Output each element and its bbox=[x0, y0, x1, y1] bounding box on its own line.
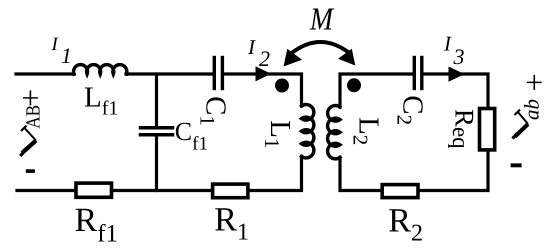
inductor L2 bbox=[328, 106, 340, 159]
inductor Lf1 bbox=[74, 65, 127, 74]
svg-text:I2: I2 bbox=[247, 35, 270, 71]
minus sign of VAB bbox=[26, 169, 35, 173]
resistor Rf1 bbox=[76, 183, 112, 197]
inductor L1 bbox=[302, 104, 314, 157]
wire Cf1 branch top bbox=[155, 74, 158, 126]
svg-text:+: + bbox=[525, 64, 543, 100]
minus sign of Vab bbox=[511, 163, 522, 167]
label Vab (rotated) bbox=[513, 110, 529, 139]
svg-text:Lf1: Lf1 bbox=[84, 82, 118, 120]
resistor R1 bbox=[213, 184, 248, 198]
dot of winding L1 bbox=[275, 79, 289, 93]
wire top-left from terminal A bbox=[16, 72, 74, 75]
mutual inductance arc M bbox=[291, 42, 350, 54]
svg-text:I1: I1 bbox=[51, 34, 72, 68]
svg-text:M: M bbox=[309, 1, 335, 37]
svg-text:C2: C2 bbox=[392, 95, 428, 125]
svg-text:L2: L2 bbox=[348, 117, 384, 145]
arrowhead of current I3 bbox=[449, 67, 465, 82]
svg-text:ab: ab bbox=[520, 99, 544, 120]
wire Req top corner bbox=[424, 74, 489, 107]
capacitor Cf1 bbox=[141, 128, 173, 135]
arrowhead M right bbox=[338, 49, 355, 66]
svg-text:R1: R1 bbox=[214, 202, 249, 246]
svg-text:+: + bbox=[21, 80, 39, 116]
svg-text:L1: L1 bbox=[260, 120, 296, 148]
svg-text:C1: C1 bbox=[195, 96, 231, 126]
svg-text:R2: R2 bbox=[388, 203, 423, 247]
resistor R2 bbox=[382, 185, 418, 198]
resistor Req bbox=[480, 109, 495, 150]
wire L1 bottom lead bbox=[250, 156, 302, 190]
capacitor C2 bbox=[414, 58, 422, 89]
svg-text:Req: Req bbox=[449, 109, 480, 149]
label VAB (rotated) bbox=[20, 126, 36, 156]
dot of winding L2 bbox=[347, 78, 361, 92]
wire L2 bottom lead bbox=[340, 157, 381, 190]
wire C1 to L1 top, corner down bbox=[224, 74, 301, 106]
capacitor C1 bbox=[214, 58, 222, 89]
wire R1 to Cf1 node bbox=[17, 189, 211, 192]
svg-text:I3: I3 bbox=[443, 32, 465, 70]
wire Lf1 to C1 bbox=[126, 72, 213, 75]
wire R2 to Req bottom bbox=[420, 152, 488, 191]
arrowhead of current I2 bbox=[256, 66, 272, 81]
wire L2 top lead bbox=[340, 74, 413, 107]
wire Cf1 branch bottom bbox=[155, 137, 158, 191]
svg-text:Rf1: Rf1 bbox=[75, 202, 119, 248]
arrowhead M left bbox=[284, 49, 303, 67]
